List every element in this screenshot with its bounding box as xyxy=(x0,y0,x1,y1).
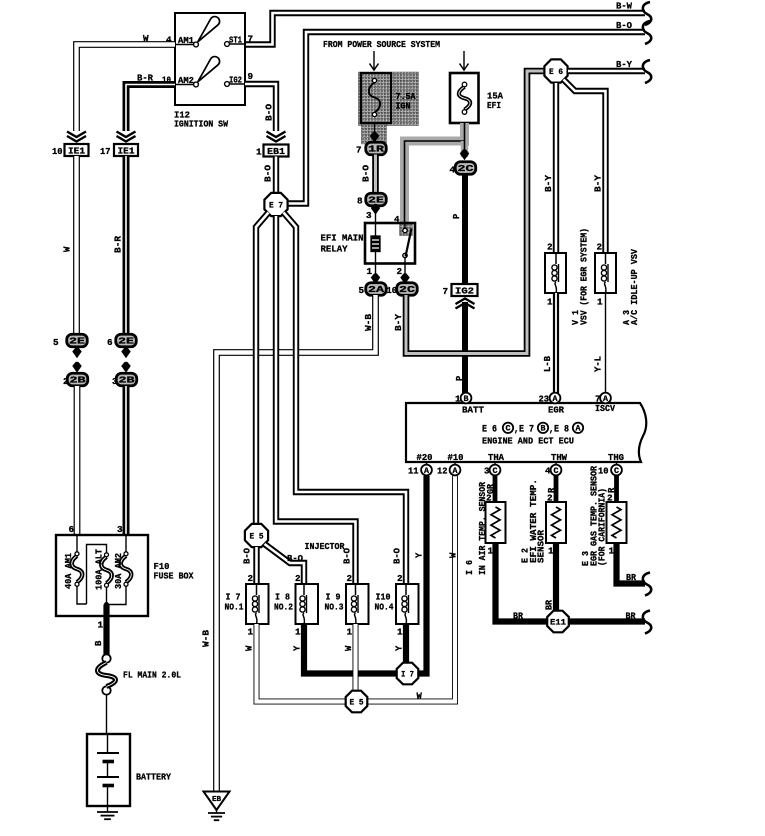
wire W from IE1 down to 2E xyxy=(63,156,77,334)
svg-text:THG: THG xyxy=(608,452,624,463)
wire B-Y E6 to VSV A3 xyxy=(564,80,606,253)
svg-text:ENGINE AND ECT ECU: ENGINE AND ECT ECU xyxy=(482,436,574,447)
svg-text:1: 1 xyxy=(248,627,254,638)
sensor E2 EFI water temp xyxy=(520,479,567,563)
wire W-B from 2A to ground EB xyxy=(202,295,376,791)
wire B-O E7 to injector No.4 xyxy=(284,213,407,585)
svg-text:BATT: BATT xyxy=(462,405,484,416)
wire W injector No.3 to node E5 lower xyxy=(344,624,356,691)
svg-text:3: 3 xyxy=(366,210,372,221)
svg-text:2C: 2C xyxy=(458,164,475,174)
wire P from IG2 to ECU BATT xyxy=(455,302,465,393)
svg-text:2: 2 xyxy=(347,573,353,584)
svg-text:Y: Y xyxy=(395,645,405,651)
svg-text:P: P xyxy=(455,376,465,381)
wire B-O from IG2 to EB1 xyxy=(245,84,276,131)
svg-text:FROM POWER SOURCE SYSTEM: FROM POWER SOURCE SYSTEM xyxy=(323,39,440,50)
svg-text:23: 23 xyxy=(539,394,550,405)
wire L-B VSV V1 to ECU EGR xyxy=(543,293,556,393)
svg-text:2B: 2B xyxy=(119,376,136,386)
node E5 junction upper xyxy=(245,524,268,547)
svg-text:1: 1 xyxy=(256,147,262,158)
svg-text:BR: BR xyxy=(626,573,637,583)
svg-text:A/C IDLE-UP VSV: A/C IDLE-UP VSV xyxy=(629,249,640,325)
arrow into fuse IGN xyxy=(370,51,379,70)
svg-text:#20: #20 xyxy=(417,452,433,463)
connector 8 2E xyxy=(357,193,386,206)
svg-text:BR: BR xyxy=(513,612,524,622)
svg-text:IGN: IGN xyxy=(396,101,411,112)
svg-text:IG2: IG2 xyxy=(229,75,242,86)
node E6 junction xyxy=(544,59,567,82)
svg-text:2: 2 xyxy=(63,376,69,387)
svg-text:7: 7 xyxy=(595,394,601,405)
fuse 40A AM1 xyxy=(64,535,82,589)
sensor I6 intake air temp xyxy=(464,482,506,575)
ECU pin 12 A #10 xyxy=(437,462,460,477)
fuse 30A AM2 xyxy=(107,535,132,605)
svg-text:E 6: E 6 xyxy=(549,67,563,77)
svg-text:2: 2 xyxy=(547,242,553,253)
svg-text:W: W xyxy=(449,552,459,558)
wire W from 2B to fuse box pin 6 xyxy=(69,386,78,535)
switch contact AM2-IG2 xyxy=(162,57,254,87)
svg-text:30A AM2: 30A AM2 xyxy=(114,553,124,589)
svg-text:BR: BR xyxy=(626,612,637,622)
wire B-R from IE1 down to 2E xyxy=(114,156,127,334)
svg-text:AM2: AM2 xyxy=(178,75,194,86)
svg-text:EB: EB xyxy=(212,796,222,804)
node E7 junction xyxy=(264,193,287,216)
svg-text:Y: Y xyxy=(415,552,425,558)
svg-text:RELAY: RELAY xyxy=(321,244,348,255)
svg-text:EFI MAIN: EFI MAIN xyxy=(321,233,364,244)
svg-text:1: 1 xyxy=(295,627,301,638)
battery xyxy=(87,734,171,806)
connector 7 IG2 xyxy=(443,284,478,297)
svg-text:E 7: E 7 xyxy=(269,201,283,211)
ECU pin 10 C THG xyxy=(598,462,622,477)
wire B-R from AM2 to IE1 xyxy=(126,73,175,132)
svg-text:6: 6 xyxy=(107,337,113,348)
ECU pin 3 C THA xyxy=(484,462,500,477)
svg-text:E 5: E 5 xyxy=(350,698,364,708)
wire Y injector No.4 to node I7 xyxy=(395,624,407,663)
svg-text:B-Y: B-Y xyxy=(594,174,604,192)
svg-text:INJECTOR: INJECTOR xyxy=(305,541,345,552)
connector 3 2B xyxy=(112,373,137,387)
wire Y-L VSV A3 to ECU ISCV xyxy=(594,293,606,393)
connector 6 2E xyxy=(107,334,136,348)
svg-text:100A ALT: 100A ALT xyxy=(95,548,105,590)
svg-text:B: B xyxy=(464,395,469,404)
connector arrows into IE1 (10) xyxy=(67,132,86,142)
svg-text:ST1: ST1 xyxy=(229,35,242,46)
wire FL MAIN to battery xyxy=(106,695,108,734)
wire BR water temp sensor to node E11 xyxy=(545,543,557,610)
svg-text:Y-L: Y-L xyxy=(594,356,604,372)
injector I9 NO.3 xyxy=(325,573,369,638)
wire R ECU THG to gas temp sensor xyxy=(607,476,617,504)
arrow and connector 4 2C below EFI fuse xyxy=(450,141,470,176)
svg-text:E 6: E 6 xyxy=(482,424,497,435)
svg-text:IGNITION SW: IGNITION SW xyxy=(174,119,228,130)
wire B-W bus from ST1 to right edge xyxy=(245,1,651,45)
ECU pin 23 A EGR xyxy=(539,393,561,405)
svg-text:A: A xyxy=(553,395,558,404)
svg-text:2C: 2C xyxy=(399,285,416,295)
svg-text:11: 11 xyxy=(408,466,419,477)
ECU box ENGINE AND ECT ECU xyxy=(406,403,646,463)
wire Y node I7 to ECU #20 xyxy=(415,476,427,674)
wire GR ECU THA to air temp sensor xyxy=(486,476,496,504)
connector arrows into EB1 xyxy=(267,132,286,142)
svg-text:IE1: IE1 xyxy=(68,146,86,156)
injector I10 NO.4 xyxy=(375,573,419,638)
svg-text:B-Y: B-Y xyxy=(544,174,554,192)
fusible link FL MAIN 2.0L xyxy=(98,654,182,694)
wire W from AM1 to IE1 xyxy=(77,33,176,131)
wire from IGN fuse to connector 1R xyxy=(370,123,379,143)
svg-text:1: 1 xyxy=(367,266,373,277)
wire BR gas temp sensor to right edge xyxy=(617,543,652,596)
connector 2 2B xyxy=(63,373,88,387)
wire B-O from EB1 to node E7 xyxy=(264,157,277,194)
svg-text:B-Y: B-Y xyxy=(394,313,404,331)
svg-text:17: 17 xyxy=(100,146,111,157)
svg-text:(FOR CARIFORNIA): (FOR CARIFORNIA) xyxy=(597,488,608,566)
svg-text:3: 3 xyxy=(117,524,123,535)
svg-text:10: 10 xyxy=(387,285,398,296)
wire Y injector No.2 to node I7 xyxy=(293,624,398,674)
svg-text:2E: 2E xyxy=(118,337,134,347)
svg-text:E11: E11 xyxy=(550,619,566,628)
svg-text:EFI: EFI xyxy=(487,100,501,111)
wire B-Y from 2C to node E6 (highlighted) xyxy=(394,71,544,354)
wire B-O E7 to injector No.3 xyxy=(276,216,356,584)
svg-text:THW: THW xyxy=(551,452,567,463)
svg-text:IE1: IE1 xyxy=(118,146,136,156)
svg-text:B-O: B-O xyxy=(265,104,275,121)
node E11 junction xyxy=(547,611,569,633)
svg-text:BR: BR xyxy=(545,599,555,610)
svg-text:IG2: IG2 xyxy=(455,286,474,296)
svg-text:1: 1 xyxy=(597,297,603,308)
svg-text:B: B xyxy=(94,640,104,646)
connector 17 IE1 xyxy=(100,144,138,157)
battery ground xyxy=(97,806,118,819)
svg-text:W: W xyxy=(63,246,73,252)
VSV A3 A/C idle-up xyxy=(595,249,640,325)
fuse box F10 xyxy=(56,535,194,616)
svg-text:1: 1 xyxy=(98,620,104,631)
fuse 7.5A IGN (highlighted) xyxy=(359,72,419,144)
relay pin 2 to connector 10 2C xyxy=(397,264,410,285)
svg-text:EB1: EB1 xyxy=(267,147,286,157)
svg-text:1R: 1R xyxy=(368,145,385,155)
svg-text:10: 10 xyxy=(598,466,609,477)
svg-text:I 7: I 7 xyxy=(401,670,414,680)
switch contact AM1-ST1 xyxy=(166,17,253,47)
wire P from 2C to IG2 xyxy=(452,175,465,285)
svg-text:A: A xyxy=(424,467,429,476)
svg-text:9: 9 xyxy=(248,71,254,82)
svg-text:E 5: E 5 xyxy=(250,532,264,542)
svg-text:7: 7 xyxy=(443,286,449,297)
node E5 junction lower xyxy=(346,691,368,713)
svg-text:1: 1 xyxy=(347,627,353,638)
svg-text:B-O: B-O xyxy=(616,20,632,31)
svg-text:NO.2: NO.2 xyxy=(274,602,293,613)
fuse 100A ALT xyxy=(77,545,112,605)
svg-text:4: 4 xyxy=(545,466,551,477)
ground EB triangle xyxy=(204,792,230,821)
svg-text:5: 5 xyxy=(53,337,59,348)
svg-text:VSV (FOR EGR SYSTEM): VSV (FOR EGR SYSTEM) xyxy=(579,228,590,325)
wire B-O E7 to node E5 xyxy=(243,213,269,565)
connector 10 2C xyxy=(387,283,418,296)
connector 5 2E xyxy=(53,334,87,348)
svg-text:B-O: B-O xyxy=(264,165,274,182)
svg-text:W-B: W-B xyxy=(202,629,212,647)
svg-text:1: 1 xyxy=(397,627,403,638)
wire B-R from 2B to fuse box pin 3 xyxy=(117,386,126,535)
svg-text:FUSE BOX: FUSE BOX xyxy=(154,571,194,582)
svg-text:L-B: L-B xyxy=(543,355,553,372)
svg-text:A: A xyxy=(576,425,581,434)
ECU pin 1 B BATT xyxy=(455,393,471,405)
svg-text:B-O: B-O xyxy=(362,165,372,182)
wire B fuse box to FL MAIN xyxy=(94,605,107,656)
wire R ECU THW to water temp sensor xyxy=(547,476,557,504)
label INJECTOR xyxy=(305,541,345,552)
svg-text:IN AIR TEMP. SENSOR: IN AIR TEMP. SENSOR xyxy=(477,482,488,575)
svg-text:W: W xyxy=(417,692,423,702)
svg-text:2: 2 xyxy=(597,242,603,253)
sensor E3 EGR gas temp xyxy=(580,466,627,566)
svg-text:7: 7 xyxy=(248,34,254,45)
connector 1 EB1 xyxy=(256,145,289,158)
svg-text:A: A xyxy=(453,467,458,476)
wire B-O E5 to injector No.2 xyxy=(265,544,305,584)
svg-text:W: W xyxy=(245,645,255,651)
svg-text:12: 12 xyxy=(437,466,448,477)
svg-text:P: P xyxy=(452,214,462,219)
svg-text:EGR: EGR xyxy=(548,405,564,416)
svg-text:NO.3: NO.3 xyxy=(325,602,344,613)
svg-text:W: W xyxy=(344,645,354,651)
svg-text:C: C xyxy=(614,467,619,476)
svg-text:BATTERY: BATTERY xyxy=(136,772,171,783)
svg-text:ISCV: ISCV xyxy=(595,403,615,414)
svg-text:3: 3 xyxy=(112,376,118,387)
svg-text:B-R: B-R xyxy=(114,235,124,253)
relay pin 1 to connector 5 2A xyxy=(367,264,381,285)
svg-text:2: 2 xyxy=(397,573,403,584)
ECU pin 4 C THW xyxy=(545,462,561,477)
injector I7 NO.1 xyxy=(225,573,269,638)
svg-text:B-O: B-O xyxy=(287,554,303,564)
svg-text:5: 5 xyxy=(359,285,365,296)
wire B-Y E6 to VSV V1 xyxy=(544,83,556,253)
connector 10 IE1 xyxy=(52,144,89,157)
svg-text:,E 7: ,E 7 xyxy=(514,424,534,435)
svg-text:2A: 2A xyxy=(368,285,385,295)
junction arrows 2E to 2B xyxy=(72,348,81,373)
svg-text:1: 1 xyxy=(455,394,461,405)
svg-text:AM1: AM1 xyxy=(178,35,194,46)
wire B-O bus from node E7 to right edge xyxy=(287,20,652,204)
svg-text:8: 8 xyxy=(357,196,363,207)
svg-text:40A AM1: 40A AM1 xyxy=(64,552,74,589)
arrow into fuse EFI xyxy=(460,51,469,70)
svg-text:7: 7 xyxy=(356,145,362,156)
svg-text:C: C xyxy=(493,467,498,476)
svg-text:A: A xyxy=(603,395,608,404)
svg-text:B-R: B-R xyxy=(137,73,153,84)
svg-text:B: B xyxy=(541,425,546,434)
chevron below IG2 xyxy=(456,299,475,309)
svg-text:2B: 2B xyxy=(70,376,87,386)
svg-text:SENSOR: SENSOR xyxy=(536,530,547,563)
svg-text:Y: Y xyxy=(293,645,303,651)
svg-text:1: 1 xyxy=(547,297,553,308)
svg-text:,E 8: ,E 8 xyxy=(549,424,569,435)
ECU pin 7 A ISCV xyxy=(595,393,611,405)
svg-text:B-Y: B-Y xyxy=(616,59,632,70)
svg-text:C: C xyxy=(506,425,511,434)
node I7 junction xyxy=(397,663,419,685)
svg-text:W-B: W-B xyxy=(364,313,374,331)
svg-text:2E: 2E xyxy=(69,337,85,347)
ECU pin 11 A #20 xyxy=(408,462,432,477)
wire W injector No.1 to node E5 lower xyxy=(245,624,347,702)
fuse 15A EFI xyxy=(450,73,503,123)
wire B-O E5 to injector No.1 xyxy=(253,547,259,584)
junction arrows 2E to 2B xyxy=(121,348,130,373)
wire B-O from 1R to 2E (highlighted) xyxy=(362,155,376,195)
svg-text:I 6: I 6 xyxy=(464,560,475,575)
relay EFI MAIN RELAY xyxy=(321,223,416,264)
svg-text:FL MAIN 2.0L: FL MAIN 2.0L xyxy=(123,670,181,681)
connector arrows into IE1 (17) xyxy=(117,132,136,142)
svg-text:2: 2 xyxy=(397,266,403,277)
fuse box output junction xyxy=(104,588,109,607)
svg-text:10: 10 xyxy=(52,146,63,157)
wire from EFI fuse to relay pin 4 (highlighted gray) xyxy=(394,123,465,225)
connector 5 2A xyxy=(359,283,387,296)
svg-text:B-W: B-W xyxy=(616,1,632,12)
svg-text:6: 6 xyxy=(69,524,75,535)
svg-text:3: 3 xyxy=(484,466,490,477)
svg-text:2: 2 xyxy=(295,573,301,584)
wire BR air temp sensor to node E11 xyxy=(496,543,548,622)
svg-text:THA: THA xyxy=(488,452,504,463)
svg-text:2: 2 xyxy=(248,573,254,584)
wire B-Y node E6 to right edge xyxy=(568,59,651,83)
connector 4 2C oval xyxy=(455,162,476,175)
svg-text:W: W xyxy=(143,33,149,44)
injector I8 NO.2 xyxy=(274,573,318,638)
wire BR node E11 to right edge xyxy=(569,611,651,634)
VSV V1 (for EGR system) xyxy=(545,228,590,325)
connector 7 1R xyxy=(356,142,386,155)
svg-text:B-O: B-O xyxy=(393,548,403,564)
ignition switch I12 box xyxy=(174,13,245,130)
svg-text:NO.1: NO.1 xyxy=(225,602,244,613)
wire W node E5 lower to ECU #10 xyxy=(367,476,459,702)
svg-text:NO.4: NO.4 xyxy=(375,602,394,613)
label FROM POWER SOURCE SYSTEM xyxy=(323,39,440,50)
svg-text:B-O: B-O xyxy=(243,548,253,564)
svg-text:#10: #10 xyxy=(448,452,464,463)
arrow 2E to relay pin 3 xyxy=(366,204,380,223)
svg-text:C: C xyxy=(554,467,559,476)
